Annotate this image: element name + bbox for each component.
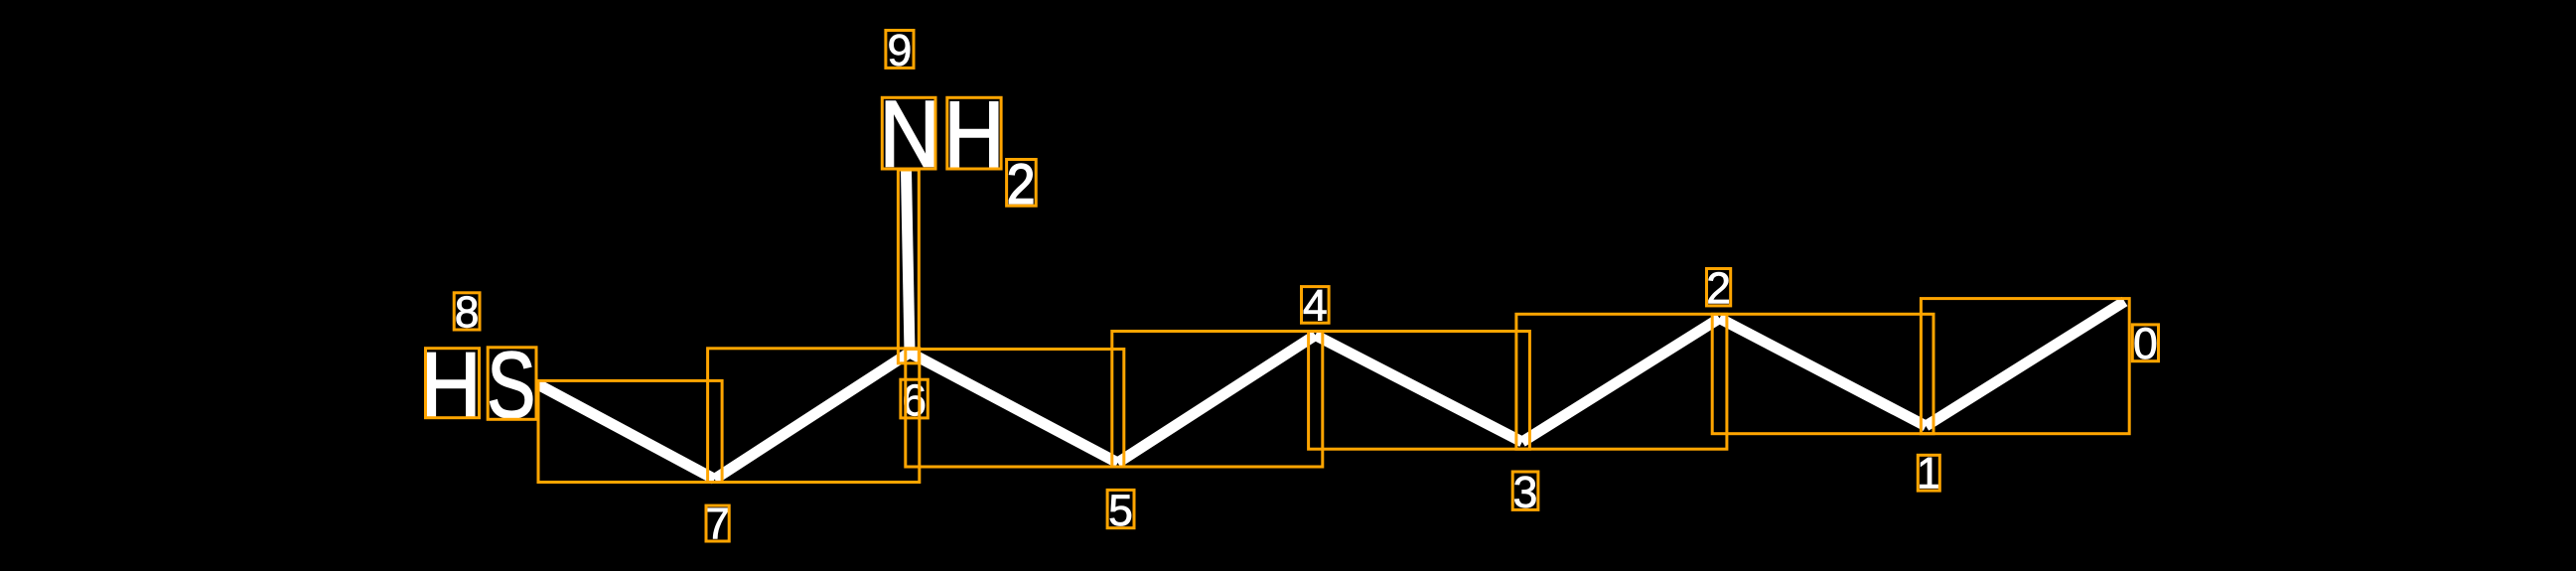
bond C3-C2 (1522, 319, 1720, 443)
label N (886, 101, 932, 166)
index 0 (2135, 328, 2156, 359)
box index 4 (1302, 287, 1330, 324)
atom labels (427, 101, 1032, 418)
box bond N-C6 (898, 170, 919, 363)
annotation boxes (426, 31, 2159, 542)
box bond C6-C5 (906, 350, 1124, 468)
wire bonds (538, 171, 2125, 480)
box bond C5-C4 (1112, 332, 1323, 468)
bond C5-C4 (1118, 336, 1316, 464)
box label subscript 2 (1007, 160, 1037, 207)
bond N-C6 (907, 171, 911, 353)
index 4 (1304, 290, 1327, 321)
box index 2 (1707, 269, 1731, 306)
index 6 (905, 384, 926, 416)
box index 0 (2132, 325, 2158, 361)
box bond C2-C1 (1712, 314, 1933, 433)
box index 5 (1107, 490, 1134, 527)
box bond C7-C6 (708, 349, 920, 483)
bond C2-C1 (1720, 319, 1927, 427)
index 2 (1709, 272, 1729, 303)
index 5 (1110, 496, 1131, 526)
bond C7-C6 (715, 353, 910, 480)
box index 1 (1918, 455, 1939, 491)
box bond C1-C0 (1921, 299, 2129, 434)
box label H of NH2 (947, 97, 1001, 169)
box label H of HS (426, 349, 480, 418)
atom index digits (457, 35, 2156, 539)
index 7 (708, 508, 728, 539)
box index 3 (1512, 472, 1538, 509)
box label S (488, 348, 536, 420)
box bond S-C7 (538, 380, 722, 482)
bond C6-C5 (910, 353, 1118, 463)
index 9 (890, 35, 911, 66)
box index 8 (454, 293, 480, 330)
box index 7 (706, 505, 729, 541)
label subscript 2 (1009, 164, 1032, 204)
index 1 (1920, 458, 1938, 489)
bond S-C7 (538, 384, 715, 480)
box bond C4-C3 (1309, 332, 1530, 450)
bond C1-C0 (1926, 302, 2124, 427)
index 3 (1514, 477, 1535, 508)
label H of HS (427, 353, 474, 417)
bond C4-C3 (1316, 336, 1522, 443)
label S (491, 352, 532, 418)
box label N (882, 97, 935, 169)
box index 9 (886, 31, 914, 69)
index 8 (457, 296, 478, 328)
box bond C3-C2 (1516, 314, 1727, 449)
box index 6 (901, 379, 928, 418)
label H of NH2 (950, 102, 997, 167)
